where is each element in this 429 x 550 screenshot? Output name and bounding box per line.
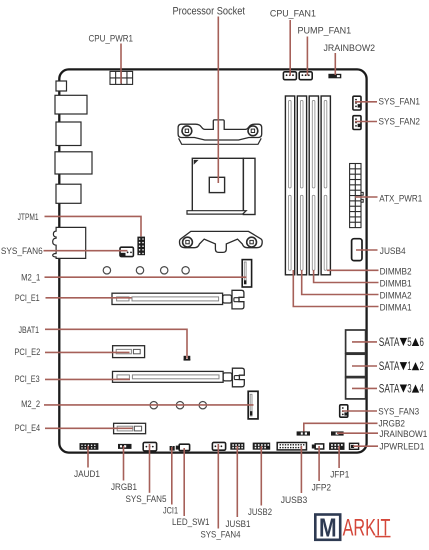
- connector JRGB2: [297, 431, 310, 435]
- svg-text:SYS_FAN4: SYS_FAN4: [201, 530, 241, 540]
- svg-text:PCI_E3: PCI_E3: [15, 374, 40, 384]
- screw bottom-right: [247, 237, 257, 247]
- svg-text:JUSB1: JUSB1: [226, 519, 251, 529]
- svg-text:SYS_FAN1: SYS_FAN1: [379, 96, 421, 106]
- leader lines: [44, 17, 379, 529]
- label SATA 3/4: [379, 382, 424, 396]
- svg-text:ATX_PWR1: ATX_PWR1: [379, 193, 422, 203]
- screw bottom-left: [183, 237, 193, 247]
- svg-text:Processor Socket: Processor Socket: [173, 6, 246, 18]
- connector CPU_FAN1: [283, 72, 296, 80]
- connector JRAINBOW2: [328, 74, 341, 79]
- leader JFP2: [318, 446, 320, 481]
- svg-text:JCI1: JCI1: [163, 506, 178, 516]
- PCI_E3 slot: [113, 371, 224, 382]
- svg-text:JRAINBOW1: JRAINBOW1: [379, 429, 427, 439]
- connector SYS_FAN4: [212, 442, 225, 450]
- DIMM slot DIMMB2: [321, 96, 330, 275]
- DIMM slot DIMMA1: [285, 96, 294, 275]
- DIMM slot DIMMB1: [309, 96, 318, 275]
- svg-text:JUSB3: JUSB3: [281, 495, 308, 505]
- svg-text:JFP2: JFP2: [312, 482, 332, 492]
- connector JUSB2: [253, 443, 271, 450]
- connector SYS_FAN6: [120, 247, 133, 256]
- leader DIMMB1: [314, 270, 379, 283]
- leader JUSB2: [260, 446, 262, 506]
- leader CPU_PWR1: [120, 44, 122, 84]
- PCI_E2 slot: [113, 346, 145, 358]
- socket lever side: [243, 158, 255, 214]
- leader JBAT1: [45, 329, 187, 358]
- svg-text:5: 5: [407, 335, 412, 349]
- SATA ports 5/6: [346, 330, 366, 353]
- screw top-right: [248, 126, 258, 136]
- audio port block (rear panel): [53, 227, 86, 258]
- bottom edge: connector JAUD1: [80, 443, 99, 450]
- leader LED_SW1: [183, 448, 185, 516]
- svg-text:PCI_E4: PCI_E4: [15, 423, 40, 433]
- svg-text:JAUD1: JAUD1: [74, 469, 100, 479]
- leader M2_2: [44, 404, 254, 406]
- svg-text:SYS_FAN3: SYS_FAN3: [378, 406, 419, 416]
- svg-text:M2_1: M2_1: [21, 272, 40, 282]
- leader SATA34: [352, 387, 377, 389]
- connector M2_1: [242, 260, 251, 287]
- I/O port 1 (rear panel): [56, 81, 67, 91]
- connector JPWRLED1: [350, 443, 359, 449]
- I/O port 3 (rear panel): [56, 122, 81, 146]
- svg-text:SYS_FAN5: SYS_FAN5: [126, 494, 167, 504]
- svg-text:PCI_E2: PCI_E2: [14, 347, 40, 357]
- leader PCI_E3: [45, 378, 130, 380]
- leader JFP1: [338, 446, 340, 468]
- DIMM slot DIMMA2: [297, 96, 306, 275]
- connector JFP1: [329, 443, 344, 450]
- leader M2_1: [45, 276, 247, 278]
- connector PUMP_FAN1: [299, 72, 312, 80]
- connector JUSB1: [230, 443, 244, 450]
- leader JCI1: [171, 447, 173, 505]
- leader DIMMA1: [293, 270, 378, 307]
- board outline: [59, 69, 366, 452]
- socket pin-1 triangle: [194, 160, 199, 165]
- leader DIMMB2: [327, 269, 379, 271]
- svg-text:JBAT1: JBAT1: [19, 325, 40, 335]
- svg-text:2: 2: [420, 359, 425, 373]
- leader SATA56: [352, 341, 377, 343]
- svg-text:JFP1: JFP1: [330, 470, 349, 480]
- svg-text:CPU_FAN1: CPU_FAN1: [270, 9, 316, 19]
- leader SYS_FAN2: [355, 121, 377, 123]
- cooler bracket bottom: [179, 231, 262, 252]
- svg-text:JTPM1: JTPM1: [18, 212, 39, 222]
- svg-text:M: M: [319, 514, 337, 542]
- leader JAUD1: [87, 446, 89, 468]
- I/O port 4 (rear panel): [55, 152, 92, 174]
- PCI_E4 slot: [114, 423, 146, 433]
- PCI_E1 latch: [223, 290, 244, 309]
- leader JPWRLED1: [353, 445, 378, 447]
- svg-text:DIMMA2: DIMMA2: [380, 291, 412, 301]
- connector JUSB3 (USB 3.2 header): [277, 443, 306, 450]
- svg-text:DIMMB2: DIMMB2: [380, 266, 412, 276]
- connector JRGB1: [118, 444, 132, 449]
- svg-text:JPWRLED1: JPWRLED1: [379, 442, 424, 452]
- I/O port 2 (rear panel): [55, 95, 87, 114]
- svg-text:6: 6: [420, 335, 425, 349]
- leader JUSB3: [300, 446, 302, 493]
- socket bottom bar: [187, 211, 246, 214]
- leader SYS_FAN3: [342, 410, 377, 412]
- connector JRAINBOW1: [331, 431, 344, 435]
- svg-text:JRGB2: JRGB2: [379, 419, 406, 429]
- svg-text:DIMMA1: DIMMA1: [380, 303, 412, 313]
- svg-text:DIMMB1: DIMMB1: [380, 279, 412, 289]
- svg-text:SYS_FAN2: SYS_FAN2: [379, 116, 421, 126]
- connector SYS_FAN1: [353, 96, 361, 110]
- screw top-left: [182, 126, 192, 136]
- svg-text:4: 4: [420, 382, 425, 396]
- leader SYS_FAN5: [149, 444, 151, 493]
- connector JFP2: [312, 444, 324, 449]
- leader JUSB1: [236, 446, 238, 517]
- label SATA 5/6: [379, 335, 424, 349]
- leader JRAINBOW2: [334, 53, 336, 75]
- connector JUSB4: [352, 239, 362, 261]
- svg-text:M2_2: M2_2: [21, 399, 40, 409]
- SATA ports 3/4: [346, 378, 366, 399]
- M.2 standoff holes (M2_2): [150, 402, 206, 409]
- leader JRGB1: [123, 446, 125, 481]
- leader Processor Socket: [217, 17, 219, 184]
- jumper JCI1: [170, 446, 175, 451]
- svg-text:CPU_PWR1: CPU_PWR1: [89, 34, 134, 44]
- svg-text:PCI_E1: PCI_E1: [15, 293, 40, 303]
- svg-text:SYS_FAN6: SYS_FAN6: [1, 246, 43, 256]
- connector SYS_FAN3: [340, 405, 348, 417]
- svg-text:3: 3: [407, 382, 412, 396]
- switch LED_SW1: [176, 444, 190, 450]
- M.2 standoff holes (M2_1): [103, 267, 189, 274]
- label SATA 1/2: [379, 359, 424, 373]
- svg-text:JRGB1: JRGB1: [111, 482, 137, 492]
- svg-text:JRAINBOW2: JRAINBOW2: [324, 43, 376, 53]
- I/O port 5 (rear panel): [56, 184, 81, 203]
- connector ATX_PWR1 (2x12 grid): [350, 164, 364, 228]
- svg-text:JUSB4: JUSB4: [380, 246, 406, 256]
- svg-text:SATA: SATA: [379, 335, 400, 349]
- connector SYS_FAN5: [143, 442, 156, 451]
- svg-text:SATA: SATA: [379, 382, 400, 396]
- processor socket body: [192, 158, 243, 211]
- connector CPU_PWR1 (4x2 grid): [110, 71, 133, 84]
- leader PUMP_FAN1: [306, 37, 308, 76]
- PCI_E1 slot: [112, 293, 223, 304]
- leader PCI_E2: [45, 351, 130, 353]
- leader ATX_PWR1: [355, 196, 378, 198]
- connector M2_2: [248, 391, 258, 419]
- leader PCI_E1: [46, 297, 132, 299]
- jumper JBAT1: [184, 356, 191, 361]
- connector SYS_FAN2: [353, 116, 361, 130]
- leader JUSB4: [356, 249, 378, 251]
- leader DIMMA2: [302, 270, 379, 295]
- leader JRAINBOW1: [337, 432, 378, 434]
- socket inner square: [209, 177, 224, 192]
- PCI_E3 latch: [223, 368, 244, 387]
- connector JTPM1 (2x5 header): [137, 237, 145, 256]
- cooler bracket top: [178, 120, 262, 144]
- leader SYS_FAN1: [355, 101, 377, 103]
- leader JRGB2: [304, 423, 378, 431]
- svg-text:1: 1: [407, 359, 412, 373]
- leader CPU_FAN1: [289, 20, 291, 76]
- svg-text:PUMP_FAN1: PUMP_FAN1: [298, 25, 352, 35]
- svg-text:JUSB2: JUSB2: [248, 507, 272, 517]
- leader SYS_FAN4: [217, 444, 219, 529]
- leader SYS_FAN6: [44, 250, 128, 252]
- svg-text:SATA: SATA: [379, 359, 400, 373]
- svg-text:LED_SW1: LED_SW1: [172, 517, 210, 527]
- leader SATA12: [352, 365, 377, 367]
- MARKIT logo: [315, 514, 390, 542]
- leader PCI_E4: [45, 427, 133, 429]
- SATA ports 1/2: [346, 354, 366, 376]
- leader JTPM1: [45, 216, 142, 236]
